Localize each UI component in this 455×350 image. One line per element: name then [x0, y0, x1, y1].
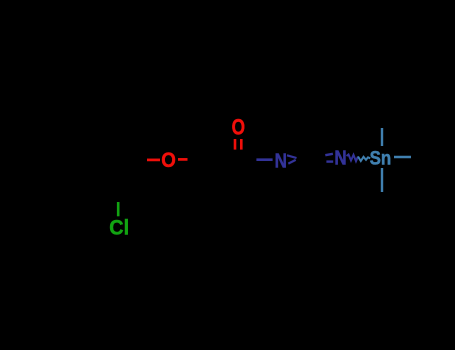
svg-text:Cl: Cl — [109, 216, 129, 240]
wire: N1=C double bond lower line (blue, converging) — [288, 160, 295, 164]
svg-text:N: N — [334, 147, 346, 169]
wire: bond Sn to methyl right (steel-blue half) — [394, 156, 411, 158]
wire: bond ring-C to Cl (green half) — [117, 202, 120, 216]
svg-text:O: O — [232, 115, 245, 140]
svg-text:N: N — [275, 150, 287, 172]
wire: C=N2 double bond upper line (blue) — [325, 154, 333, 155]
wire: C=O double bond line 1 (red) — [234, 139, 237, 150]
wire: bond ring-C to ether O (red half) — [147, 159, 160, 162]
wire: C=N2 double bond lower line (blue) — [326, 160, 333, 162]
svg-text:O: O — [161, 148, 176, 172]
wire: C=O double bond line 2 (red) — [240, 139, 243, 150]
wire: bond Sn to methyl below (steel-blue half) — [381, 168, 383, 192]
wire: bond Sn to methyl above (steel-blue half) — [381, 128, 383, 146]
wire: wavy N2-Sn bond, tin half (steel-blue zigzag) — [358, 157, 370, 162]
wire: bond ether O to CH2 (red half) — [178, 158, 188, 161]
svg-text:Sn: Sn — [370, 147, 392, 169]
wire: wavy N2-Sn bond, nitrogen half (blue zigzag) — [347, 155, 359, 162]
wire: N1=C double bond upper line (blue, converging) — [287, 155, 297, 158]
wire: bond carbonyl-C to N1 (blue half) — [256, 158, 272, 161]
